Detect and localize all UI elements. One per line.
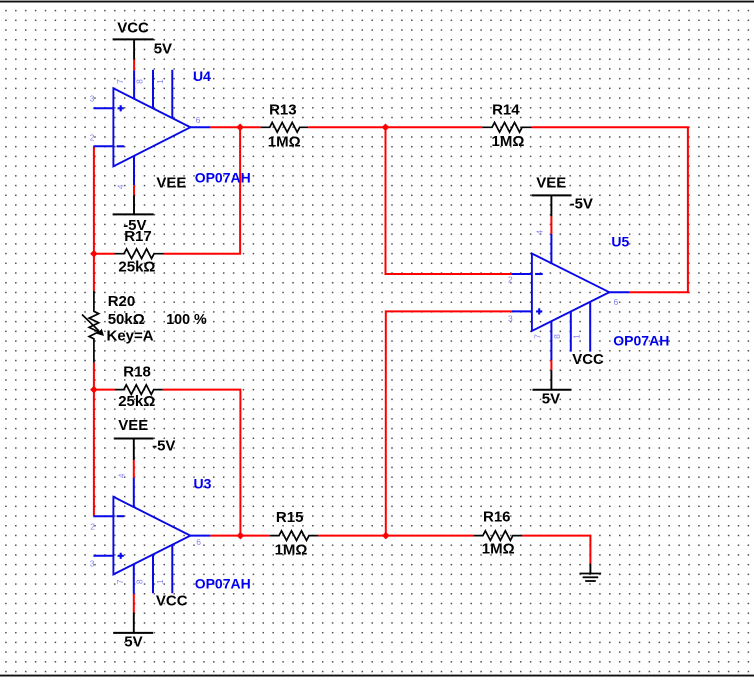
svg-text:3: 3 xyxy=(508,314,513,324)
svg-text:VCC: VCC xyxy=(156,593,188,610)
svg-text:R18: R18 xyxy=(123,364,151,381)
svg-text:U3: U3 xyxy=(194,476,212,492)
svg-text:4: 4 xyxy=(116,473,126,478)
svg-text:5V: 5V xyxy=(124,633,142,650)
svg-text:7: 7 xyxy=(115,79,125,84)
svg-text:5V: 5V xyxy=(542,390,560,407)
VCC power symbol at U4 xyxy=(113,19,172,70)
svg-text:VEE: VEE xyxy=(118,417,148,434)
svg-text:-5V: -5V xyxy=(123,217,146,234)
op-amp U4 xyxy=(93,70,210,185)
svg-text:25kΩ: 25kΩ xyxy=(118,393,155,410)
svg-text:-5V: -5V xyxy=(152,438,175,455)
svg-text:-5V: -5V xyxy=(570,195,593,212)
resistor R14 xyxy=(482,102,532,150)
svg-text:1MΩ: 1MΩ xyxy=(275,542,308,559)
svg-text:R14: R14 xyxy=(492,102,520,119)
svg-text:6: 6 xyxy=(196,115,201,125)
svg-text:U4: U4 xyxy=(193,68,211,84)
svg-text:1MΩ: 1MΩ xyxy=(492,133,525,150)
svg-text:2: 2 xyxy=(508,275,513,285)
svg-text:8: 8 xyxy=(135,79,145,84)
VEE power symbol at U5 xyxy=(532,174,593,234)
svg-text:1MΩ: 1MΩ xyxy=(482,541,515,558)
wire U4 inverting input down to R20 top xyxy=(93,146,95,291)
svg-text:VEE: VEE xyxy=(536,174,566,191)
junction U4 output R13 xyxy=(236,124,244,132)
svg-text:4: 4 xyxy=(534,230,544,235)
wire R13 right to R14 left xyxy=(308,126,482,128)
junction node A R17 xyxy=(90,250,98,258)
resistor R17 xyxy=(115,228,164,275)
wire R17 left to node A xyxy=(93,253,115,255)
wire U4 output to R13 xyxy=(210,126,260,128)
svg-text:50kΩ: 50kΩ xyxy=(108,311,145,328)
resistor R16 xyxy=(473,509,522,558)
svg-text:1: 1 xyxy=(155,79,165,84)
svg-text:R15: R15 xyxy=(276,509,304,526)
svg-text:VCC: VCC xyxy=(117,19,149,36)
VEE power symbol at U3 xyxy=(114,417,176,477)
svg-text:7: 7 xyxy=(532,334,542,339)
VCC power symbol at U5 xyxy=(533,351,605,407)
wire R14 right feedback to U5 output xyxy=(532,127,688,292)
wire R20 bottom down to U3 inverting input xyxy=(93,363,95,517)
svg-text:Key=A: Key=A xyxy=(107,328,154,345)
wire bottom net up to U5 noninverting input xyxy=(386,311,514,535)
svg-text:OP07AH: OP07AH xyxy=(195,576,251,592)
resistor R13 xyxy=(261,102,308,151)
junction R13 R14 top net xyxy=(382,124,390,132)
junction R15 R16 bottom net xyxy=(382,532,390,540)
svg-text:3: 3 xyxy=(90,559,95,569)
svg-text:2: 2 xyxy=(90,133,95,143)
wire U3 output to R15 xyxy=(210,535,269,537)
svg-text:6: 6 xyxy=(614,297,619,307)
wire R16 right to ground xyxy=(522,536,590,564)
op-amp U5 xyxy=(512,234,629,360)
svg-text:OP07AH: OP07AH xyxy=(613,333,669,349)
svg-text:R16: R16 xyxy=(483,509,511,526)
resistor R18 xyxy=(115,364,163,410)
VEE power symbol at U4 xyxy=(113,174,187,234)
svg-text:VCC: VCC xyxy=(572,351,604,368)
svg-text:8: 8 xyxy=(135,579,145,584)
svg-text:U5: U5 xyxy=(611,233,629,249)
svg-text:8: 8 xyxy=(552,334,562,339)
wire R18 right down to U3 output net xyxy=(163,390,241,536)
ground xyxy=(580,564,602,582)
svg-text:1: 1 xyxy=(571,334,581,339)
svg-text:OP07AH: OP07AH xyxy=(195,170,251,186)
wire top net down to U5 inverting input xyxy=(386,127,514,274)
svg-text:2: 2 xyxy=(90,522,95,532)
op-amp U3 xyxy=(93,478,210,594)
svg-text:1: 1 xyxy=(155,579,165,584)
svg-text:R20: R20 xyxy=(108,293,136,310)
svg-text:3: 3 xyxy=(90,94,95,104)
junction U3 output R15 xyxy=(237,532,245,540)
svg-text:7: 7 xyxy=(115,579,125,584)
svg-text:6: 6 xyxy=(196,537,201,547)
svg-text:1MΩ: 1MΩ xyxy=(268,134,301,151)
VCC power symbol at U3 xyxy=(113,593,188,651)
svg-text:5V: 5V xyxy=(154,40,172,57)
svg-text:100 %: 100 % xyxy=(166,311,207,328)
svg-text:25kΩ: 25kΩ xyxy=(118,259,155,276)
wire U4 output junction down and left to R17 xyxy=(164,127,241,253)
wire R18 left to node B xyxy=(93,389,115,391)
wire R15 right to R16 left xyxy=(318,535,473,537)
svg-text:R13: R13 xyxy=(269,102,297,119)
svg-text:4: 4 xyxy=(116,184,126,189)
resistor R15 xyxy=(270,509,318,559)
svg-text:VEE: VEE xyxy=(156,174,186,191)
junction node B R18 xyxy=(90,386,98,394)
potentiometer R20 xyxy=(82,291,207,363)
